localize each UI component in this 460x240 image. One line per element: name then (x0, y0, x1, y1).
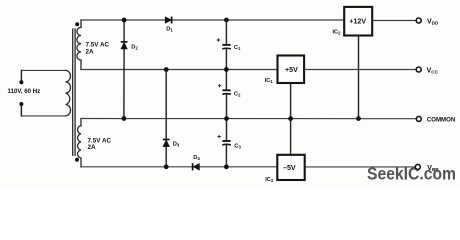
wire: D2 branch from rail A down to D2 (123, 20, 125, 42)
wire: D3 branch from D3 down to bottom rail (165, 147, 167, 167)
wire: D3 branch from rail B down to D3 (crosses COMMON, no dot) (165, 70, 167, 140)
junction: C3 bottom on bottom rail (224, 164, 229, 169)
wire: primary top lead horizontal (21, 69, 65, 71)
svg-text:+5V: +5V (285, 66, 298, 74)
transformer T1 core line left (72, 29, 74, 155)
wire: IC1 ground lead and IC3 ground lead to COMMON rail (290, 83, 292, 155)
diode D1 (rail A, pointing right) (165, 17, 171, 23)
wire: D2 branch from D2 down to COMMON rail (crosses rail B, no dot) (123, 49, 125, 119)
capacitor C3 plates (polarized) (222, 140, 230, 142)
svg-text:D1: D1 (166, 26, 173, 32)
svg-text:110V, 60 Hz: 110V, 60 Hz (8, 88, 41, 95)
wire: rail B from IC1 output to VCC terminal (304, 69, 416, 71)
capacitor C1 plates (polarized) (222, 44, 230, 46)
regulator IC2 (+12V) box (344, 7, 372, 36)
diode D3 (vertical, pointing up) (163, 140, 169, 147)
wire: bottom rail from D4 anode to IC3 input (200, 166, 278, 168)
svg-text:D4: D4 (193, 155, 200, 161)
junction: IC2 ground on COMMON rail (356, 116, 361, 121)
junction: D3 top on rail B (164, 67, 169, 72)
capacitor C1 plus sign (217, 38, 220, 41)
transformer T1 core line right (74, 29, 76, 155)
capacitor C2 plates (polarized) (223, 89, 231, 91)
wire: S2 top terminal lead up to COMMON rail (80, 119, 82, 126)
svg-text:SeekIC.com: SeekIC.com (367, 164, 456, 184)
svg-text:D2: D2 (131, 44, 138, 50)
svg-text:C2: C2 (234, 92, 241, 98)
terminal: VDD output (416, 18, 421, 23)
terminal: VBB output (415, 164, 420, 169)
node: AC input top terminal dot (19, 80, 23, 84)
transformer phasing dot (top secondary) (75, 22, 79, 26)
transformer phasing dot (bottom secondary) (75, 158, 79, 162)
junction: C2/C3 on COMMON rail (224, 116, 229, 121)
wire: rail B (+5V unregulated) from S1 to IC1 input (81, 69, 277, 71)
junction: C1/C2 on rail B (224, 67, 229, 72)
svg-text:–5V: –5V (283, 164, 296, 172)
wire: bottom rail from IC3 output to VBB terminal (305, 166, 416, 168)
wire: S1 bottom terminal lead down to rail B (80, 60, 82, 69)
wire: COMMON rail from S2 to COMMON terminal (81, 118, 416, 120)
terminal: VCC output (416, 67, 421, 72)
wire: C3 bottom plate to bottom rail (225, 145, 227, 167)
svg-text:+12V: +12V (349, 18, 366, 26)
wire: rail A from D1 cathode to IC2 input (173, 19, 345, 21)
wire: rail A (+12V unregulated) left segment to D1 anode (81, 19, 165, 21)
capacitor C2 plus sign (218, 84, 221, 87)
diode D4 (bottom rail, pointing left) (193, 164, 199, 171)
terminal: COMMON output (416, 116, 421, 121)
wire: C2 bottom plate to COMMON rail and C3 top plate (226, 94, 228, 141)
node: AC input bottom terminal dot (19, 102, 23, 106)
transformer T1 primary winding (66, 70, 71, 116)
svg-text:2A: 2A (86, 48, 95, 55)
transformer T1 secondary winding S1 (top, 7.5V AC 2A) (77, 27, 81, 60)
svg-text:IC3: IC3 (265, 177, 274, 183)
transformer T1 secondary winding S2 (bottom, 7.5V AC 2A) (78, 126, 81, 158)
svg-text:C3: C3 (234, 144, 241, 150)
junction: D2 bottom on COMMON rail (122, 116, 127, 121)
wire: AC input top vertical stub (20, 70, 22, 82)
regulator IC3 (-5V) box (277, 155, 304, 180)
capacitor C3 plus sign (217, 135, 220, 138)
junction: D2 top on rail A (122, 18, 127, 23)
wire: S2 bottom terminal lead down to bottom rail (80, 158, 82, 167)
junction: D3 bottom on bottom rail (164, 164, 169, 169)
diode D2 (vertical, pointing up) (121, 42, 127, 49)
svg-text:C1: C1 (234, 45, 241, 51)
regulator IC1 (+5V) box (278, 56, 305, 84)
svg-text:IC2: IC2 (333, 30, 342, 36)
wire: bottom rail from S2 to D4 cathode (81, 166, 192, 168)
svg-text:COMMON: COMMON (427, 117, 456, 124)
svg-text:2A: 2A (88, 144, 97, 151)
svg-text:D3: D3 (173, 142, 180, 148)
junction: IC1/IC3 ground on COMMON rail (288, 116, 293, 121)
wire: primary bottom lead horizontal (21, 115, 65, 117)
junction: C1 top on rail A (224, 18, 229, 23)
wire: IC2 ground lead down to COMMON rail (358, 35, 360, 118)
wire: C1 bottom plate to rail B and C2 top plate (225, 49, 227, 90)
wire: AC input bottom vertical stub (20, 104, 22, 116)
svg-text:IC1: IC1 (265, 78, 274, 84)
wire: rail A from IC2 output to VDD terminal (372, 20, 416, 22)
wire: C1 branch from rail A to C1 top plate (225, 20, 227, 45)
wire: S1 top terminal lead up to rail A (80, 20, 82, 27)
